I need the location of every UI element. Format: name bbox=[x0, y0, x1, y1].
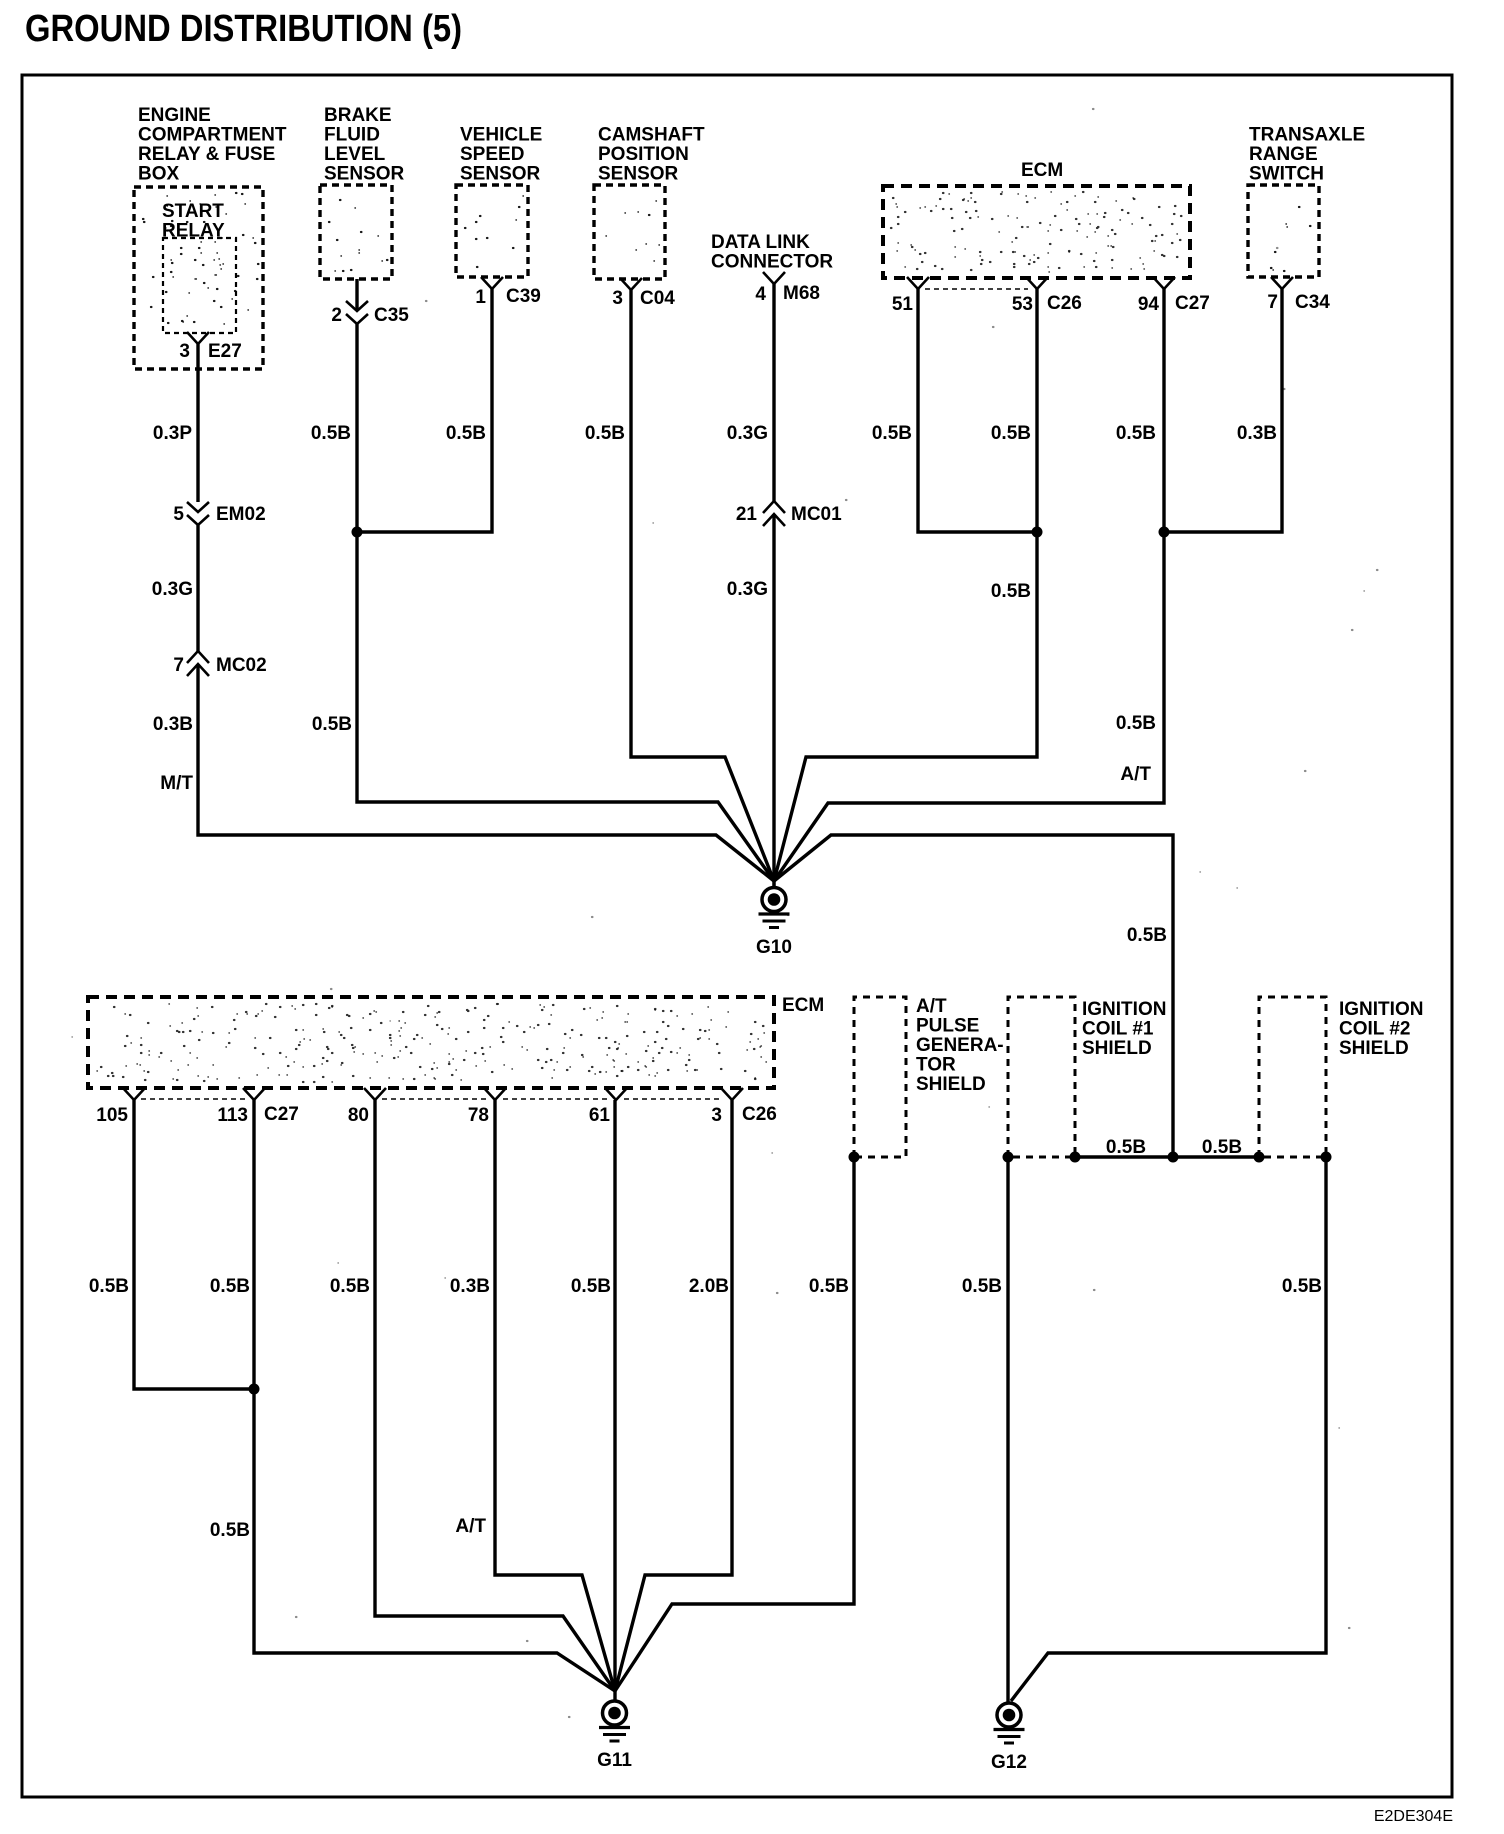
svg-text:0.5B: 0.5B bbox=[809, 1276, 849, 1297]
svg-text:CAMSHAFT: CAMSHAFT bbox=[598, 125, 705, 146]
svg-text:C27: C27 bbox=[1175, 293, 1210, 314]
svg-text:61: 61 bbox=[589, 1105, 611, 1126]
svg-text:0.5B: 0.5B bbox=[991, 581, 1031, 602]
ECM pin 94 C27 bbox=[1153, 277, 1175, 289]
svg-text:EM02: EM02 bbox=[216, 504, 266, 525]
svg-text:BRAKE: BRAKE bbox=[324, 105, 392, 126]
svg-text:2.0B: 2.0B bbox=[689, 1276, 729, 1297]
svg-text:7: 7 bbox=[1267, 292, 1278, 313]
svg-text:SHIELD: SHIELD bbox=[1339, 1038, 1409, 1059]
svg-text:0.3G: 0.3G bbox=[152, 579, 193, 600]
svg-text:0.5B: 0.5B bbox=[210, 1520, 250, 1541]
svg-text:M68: M68 bbox=[783, 283, 820, 304]
ignition coil #2 shield box bbox=[1259, 997, 1326, 1157]
ECM box (top) bbox=[883, 186, 1190, 278]
wire 0.3B from C34 to junction bbox=[1164, 289, 1282, 532]
svg-text:SPEED: SPEED bbox=[460, 144, 524, 165]
svg-text:BOX: BOX bbox=[138, 164, 180, 185]
svg-text:G12: G12 bbox=[991, 1752, 1027, 1773]
svg-text:0.5B: 0.5B bbox=[1202, 1137, 1242, 1158]
junction at A/T pulse generator shield bbox=[849, 1152, 860, 1163]
svg-text:A/T: A/T bbox=[1120, 764, 1151, 785]
junction dots on ignition bus bbox=[1003, 1152, 1014, 1163]
wire 0.3B M/T from MC02 to ground G10 bbox=[198, 664, 774, 881]
svg-text:0.5B: 0.5B bbox=[962, 1276, 1002, 1297]
in-line connector 7 MC02 bbox=[187, 651, 209, 663]
svg-text:COIL #2: COIL #2 bbox=[1339, 1019, 1410, 1040]
wire 0.5B from ECM pin 53 to ground G10 bbox=[774, 289, 1037, 881]
svg-text:PULSE: PULSE bbox=[916, 1016, 979, 1037]
svg-text:C26: C26 bbox=[742, 1104, 777, 1125]
wire 0.3B A/T from ECM pin 78 to ground G11 bbox=[495, 1100, 615, 1691]
svg-text:53: 53 bbox=[1012, 294, 1033, 315]
svg-text:G11: G11 bbox=[597, 1750, 632, 1771]
svg-text:0.5B: 0.5B bbox=[872, 423, 912, 444]
ECM pin 105 bbox=[123, 1088, 145, 1100]
svg-text:0.3B: 0.3B bbox=[450, 1276, 490, 1297]
svg-text:0.3P: 0.3P bbox=[153, 423, 192, 444]
svg-text:E27: E27 bbox=[208, 341, 242, 362]
ECM pin 61 bbox=[605, 1088, 627, 1100]
ECM pin 53 C26 bbox=[1026, 277, 1048, 289]
svg-text:SENSOR: SENSOR bbox=[598, 164, 679, 185]
svg-text:0.5B: 0.5B bbox=[1127, 925, 1167, 946]
svg-text:80: 80 bbox=[348, 1105, 369, 1126]
junction 51/53 bbox=[1032, 527, 1043, 538]
svg-text:1: 1 bbox=[475, 287, 486, 308]
wire 0.5B from ECM pin 105 to junction bbox=[134, 1100, 254, 1389]
svg-text:3: 3 bbox=[612, 288, 623, 309]
ignition shield bus wire 0.5B 0.5B bbox=[1075, 1155, 1259, 1158]
svg-text:C04: C04 bbox=[640, 288, 675, 309]
svg-text:21: 21 bbox=[736, 504, 758, 525]
svg-text:51: 51 bbox=[892, 294, 914, 315]
svg-text:0.5B: 0.5B bbox=[210, 1276, 250, 1297]
ground G12 bbox=[997, 1703, 1021, 1727]
svg-text:A/T: A/T bbox=[916, 996, 947, 1017]
svg-text:5: 5 bbox=[173, 504, 184, 525]
svg-text:MC01: MC01 bbox=[791, 504, 842, 525]
junction C35/C39 bbox=[352, 527, 363, 538]
svg-text:7: 7 bbox=[173, 655, 184, 676]
wire 0.5B from ignition coil #1 shield to ground G12 bbox=[1006, 1157, 1009, 1703]
svg-text:E2DE304E: E2DE304E bbox=[1374, 1808, 1453, 1825]
ECM pin 3 C26 bbox=[721, 1088, 743, 1100]
svg-text:C26: C26 bbox=[1047, 293, 1082, 314]
svg-text:4: 4 bbox=[755, 284, 766, 305]
svg-text:0.5B: 0.5B bbox=[1116, 423, 1156, 444]
svg-text:G10: G10 bbox=[756, 937, 792, 958]
junction 94/C34 bbox=[1159, 527, 1170, 538]
svg-text:CONNECTOR: CONNECTOR bbox=[711, 252, 833, 273]
svg-text:SWITCH: SWITCH bbox=[1249, 164, 1324, 185]
wire 0.3G from M68 to MC01 bbox=[772, 284, 775, 501]
connector pin 1 C39 bbox=[481, 277, 503, 289]
svg-text:FLUID: FLUID bbox=[324, 125, 380, 146]
svg-text:ENGINE: ENGINE bbox=[138, 105, 211, 126]
ECM pin 80 bbox=[364, 1088, 386, 1100]
connector pin 7 C34 bbox=[1271, 277, 1293, 289]
svg-text:GENERA-: GENERA- bbox=[916, 1035, 1004, 1056]
svg-text:VEHICLE: VEHICLE bbox=[460, 125, 542, 146]
ground G10 bbox=[772, 881, 775, 889]
svg-text:0.3B: 0.3B bbox=[153, 714, 193, 735]
svg-text:C35: C35 bbox=[374, 305, 409, 326]
svg-text:TOR: TOR bbox=[916, 1055, 956, 1076]
svg-text:0.5B: 0.5B bbox=[1116, 713, 1156, 734]
ECM connector row dashed line (pins 51-53) bbox=[925, 288, 1028, 290]
wire 0.5B A/T from junction to ground G10 bbox=[774, 532, 1164, 881]
svg-text:LEVEL: LEVEL bbox=[324, 144, 386, 165]
svg-text:2: 2 bbox=[331, 305, 342, 326]
wire 0.5B from ignition coil #2 shield to ground G12 bbox=[1011, 1157, 1326, 1701]
svg-text:COMPARTMENT: COMPARTMENT bbox=[138, 125, 287, 146]
svg-text:SHIELD: SHIELD bbox=[916, 1074, 986, 1095]
ECM connector row dashed lines bbox=[141, 1098, 245, 1100]
svg-text:0.5B: 0.5B bbox=[585, 423, 625, 444]
svg-text:IGNITION: IGNITION bbox=[1082, 999, 1166, 1020]
ECM pin 51 bbox=[907, 277, 929, 289]
wire 0.3G from MC01 to ground G10 bbox=[772, 514, 775, 888]
svg-text:0.3B: 0.3B bbox=[1237, 423, 1277, 444]
svg-text:78: 78 bbox=[468, 1105, 489, 1126]
svg-text:0.5B: 0.5B bbox=[1106, 1137, 1146, 1158]
svg-text:SENSOR: SENSOR bbox=[324, 164, 405, 185]
start relay box bbox=[163, 238, 236, 333]
svg-text:3: 3 bbox=[179, 341, 190, 362]
svg-text:COIL #1: COIL #1 bbox=[1082, 1019, 1154, 1040]
ECM box (bottom) bbox=[88, 997, 774, 1088]
engine compartment relay & fuse box bbox=[134, 187, 263, 369]
in-line connector 5 EM02 bbox=[187, 502, 209, 512]
svg-text:DATA LINK: DATA LINK bbox=[711, 232, 810, 253]
wire from brake fluid level sensor to C35 bbox=[355, 279, 358, 311]
svg-text:0.3G: 0.3G bbox=[727, 579, 768, 600]
wire 0.5B from ECM pin 113 to ground G11 bbox=[254, 1100, 615, 1691]
wire 0.5B from ECM pin 61 to ground G11 bbox=[613, 1100, 616, 1702]
svg-text:GROUND DISTRIBUTION (5): GROUND DISTRIBUTION (5) bbox=[25, 8, 462, 50]
svg-text:C34: C34 bbox=[1295, 292, 1330, 313]
wire 0.5B from C35 to ground G10 bbox=[357, 324, 774, 881]
svg-text:113: 113 bbox=[217, 1105, 248, 1126]
connector pin 4 M68 bbox=[763, 272, 785, 284]
svg-text:RELAY & FUSE: RELAY & FUSE bbox=[138, 144, 275, 165]
svg-text:SHIELD: SHIELD bbox=[1082, 1038, 1152, 1059]
svg-text:TRANSAXLE: TRANSAXLE bbox=[1249, 125, 1365, 146]
svg-text:0.5B: 0.5B bbox=[571, 1276, 611, 1297]
svg-text:ECM: ECM bbox=[1021, 160, 1063, 181]
connector pin 3 E27 bbox=[187, 332, 209, 344]
svg-text:0.5B: 0.5B bbox=[89, 1276, 129, 1297]
wire 0.5B from ECM pin 94 bbox=[1162, 289, 1165, 532]
wire 0.5B from ground G10 to ignition coil shields bbox=[774, 835, 1173, 1157]
wire 0.3P from E27 to EM02 bbox=[196, 344, 199, 502]
svg-text:M/T: M/T bbox=[160, 773, 193, 794]
ignition coil #1 shield box bbox=[1008, 997, 1075, 1157]
svg-text:0.5B: 0.5B bbox=[446, 423, 486, 444]
wire 0.5B from A/T pulse generator shield to ground G11 bbox=[615, 1157, 854, 1691]
brake fluid level sensor box bbox=[320, 185, 392, 279]
ECM pin 113 C27 bbox=[243, 1088, 265, 1100]
connector pin 3 C04 bbox=[620, 278, 642, 290]
svg-text:A/T: A/T bbox=[455, 1516, 486, 1537]
svg-text:C27: C27 bbox=[264, 1104, 299, 1125]
wire 0.3G from EM02 to MC02 bbox=[196, 525, 199, 651]
wire 0.5B from ECM pin 51 to junction bbox=[918, 289, 1037, 532]
wire 0.5B from ECM pin 80 to ground G11 bbox=[375, 1100, 615, 1691]
svg-text:0.5B: 0.5B bbox=[991, 423, 1031, 444]
wire 0.5B from C39 to junction bbox=[357, 289, 492, 532]
svg-text:0.3G: 0.3G bbox=[727, 423, 768, 444]
svg-text:0.5B: 0.5B bbox=[311, 423, 351, 444]
svg-text:IGNITION: IGNITION bbox=[1339, 999, 1423, 1020]
svg-text:0.5B: 0.5B bbox=[1282, 1276, 1322, 1297]
svg-text:START: START bbox=[162, 201, 224, 222]
svg-text:0.5B: 0.5B bbox=[330, 1276, 370, 1297]
svg-text:94: 94 bbox=[1138, 294, 1160, 315]
svg-text:0.5B: 0.5B bbox=[312, 714, 352, 735]
in-line connector 21 MC01 bbox=[763, 501, 785, 513]
svg-text:3: 3 bbox=[711, 1105, 722, 1126]
junction 105/113 bbox=[249, 1384, 260, 1395]
svg-text:SENSOR: SENSOR bbox=[460, 164, 541, 185]
transaxle range switch box bbox=[1248, 185, 1319, 277]
ground G11 bbox=[603, 1701, 627, 1725]
in-line connector 2 C35 bbox=[346, 301, 368, 311]
svg-text:POSITION: POSITION bbox=[598, 144, 689, 165]
vehicle speed sensor box bbox=[456, 185, 528, 277]
wire 0.5B from C04 to ground G10 bbox=[631, 290, 774, 881]
ECM pin 78 bbox=[484, 1088, 506, 1100]
svg-text:C39: C39 bbox=[506, 286, 541, 307]
svg-text:ECM: ECM bbox=[782, 995, 824, 1016]
svg-text:MC02: MC02 bbox=[216, 655, 267, 676]
camshaft position sensor box bbox=[594, 185, 665, 279]
A/T pulse generator shield box bbox=[854, 997, 906, 1157]
wire 2.0B from ECM pin 3 to ground G11 bbox=[615, 1100, 732, 1691]
svg-text:RANGE: RANGE bbox=[1249, 144, 1318, 165]
svg-text:105: 105 bbox=[96, 1105, 128, 1126]
